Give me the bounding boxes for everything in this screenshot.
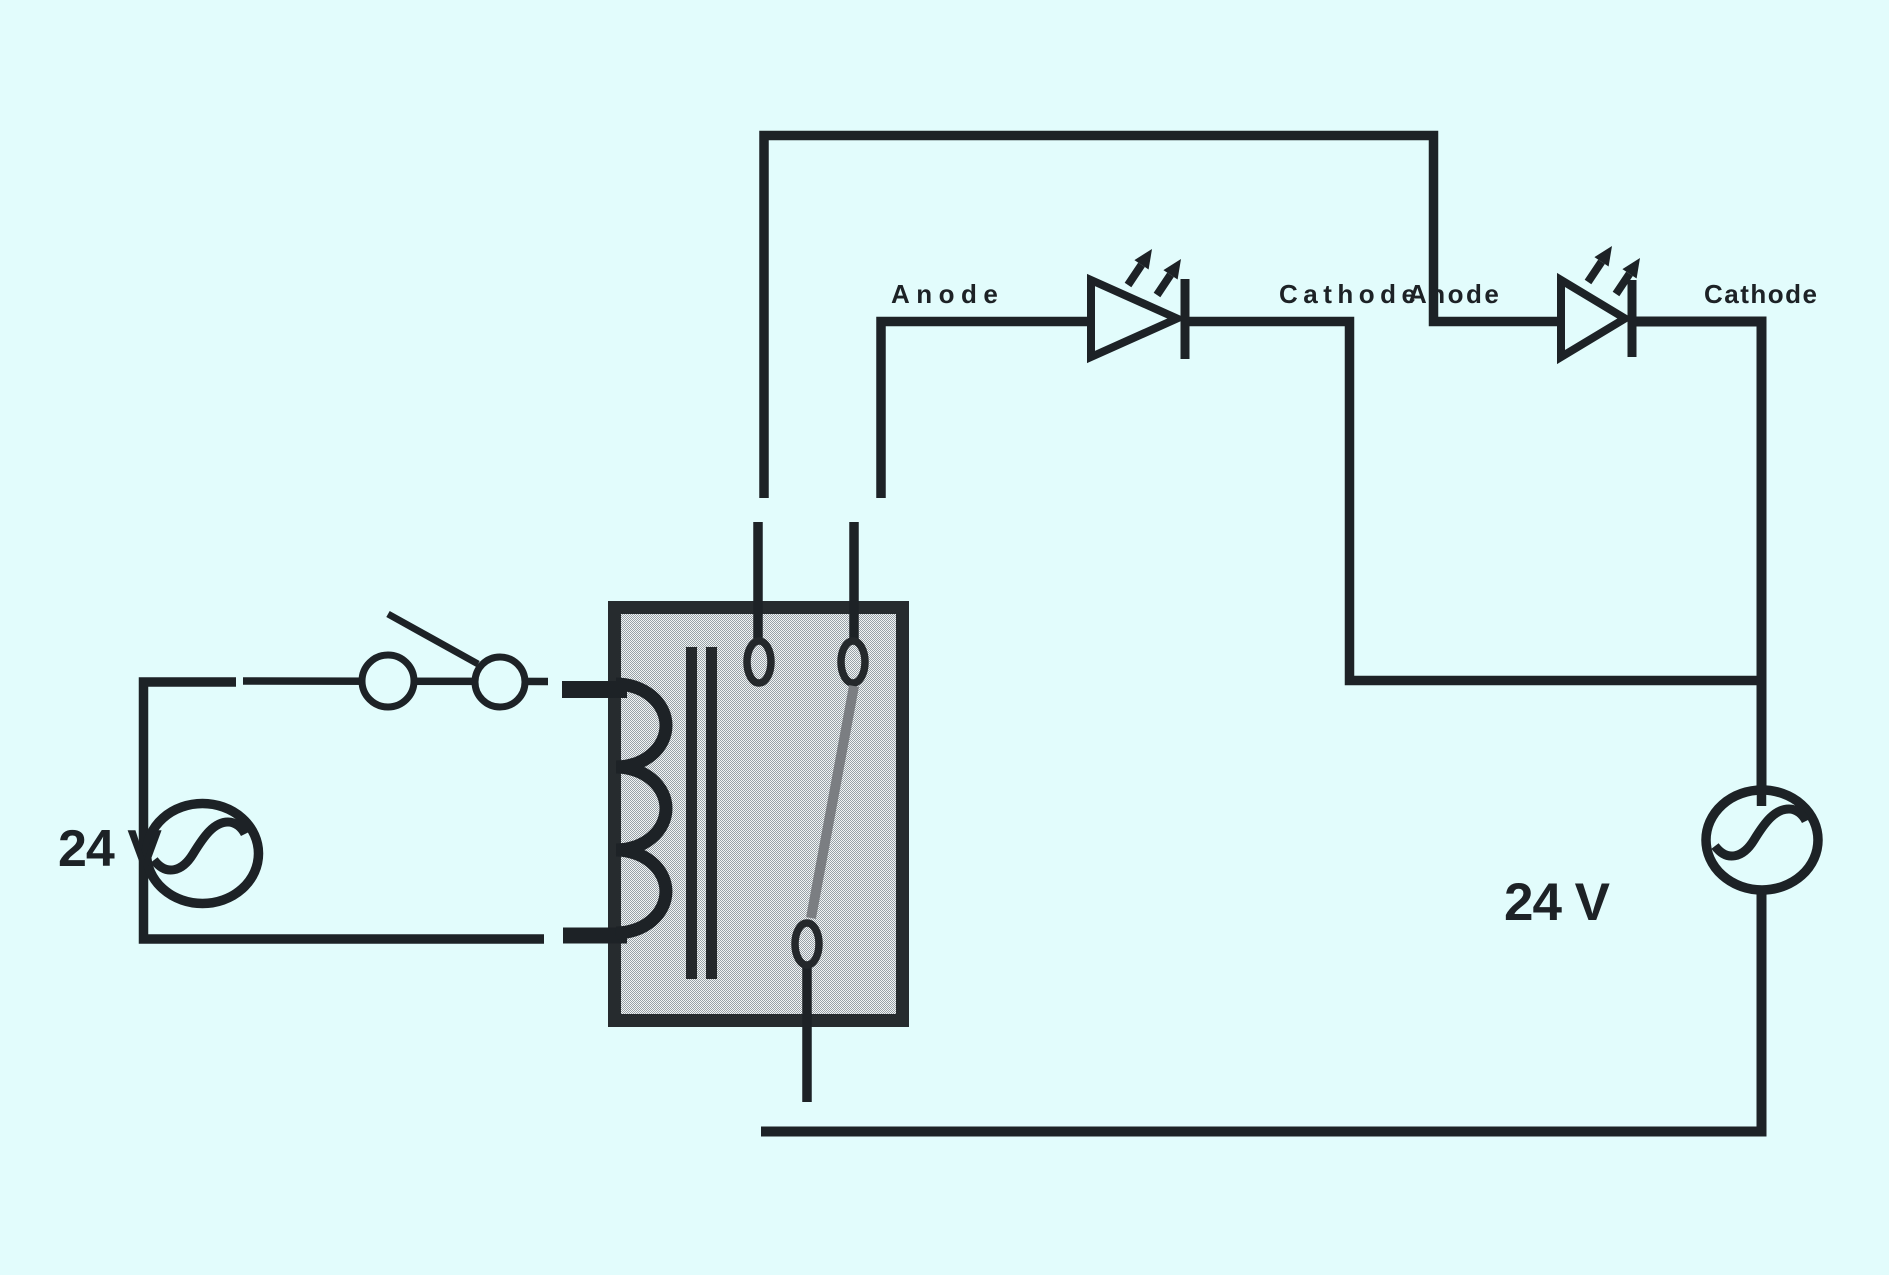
svg-text:24 V: 24 V (58, 820, 162, 878)
svg-text:Cathode: Cathode (1279, 279, 1422, 309)
svg-text:Anode: Anode (1408, 279, 1501, 309)
svg-text:24 V: 24 V (1504, 873, 1610, 932)
svg-text:Anode: Anode (891, 279, 1004, 309)
svg-text:Cathode: Cathode (1704, 279, 1819, 309)
